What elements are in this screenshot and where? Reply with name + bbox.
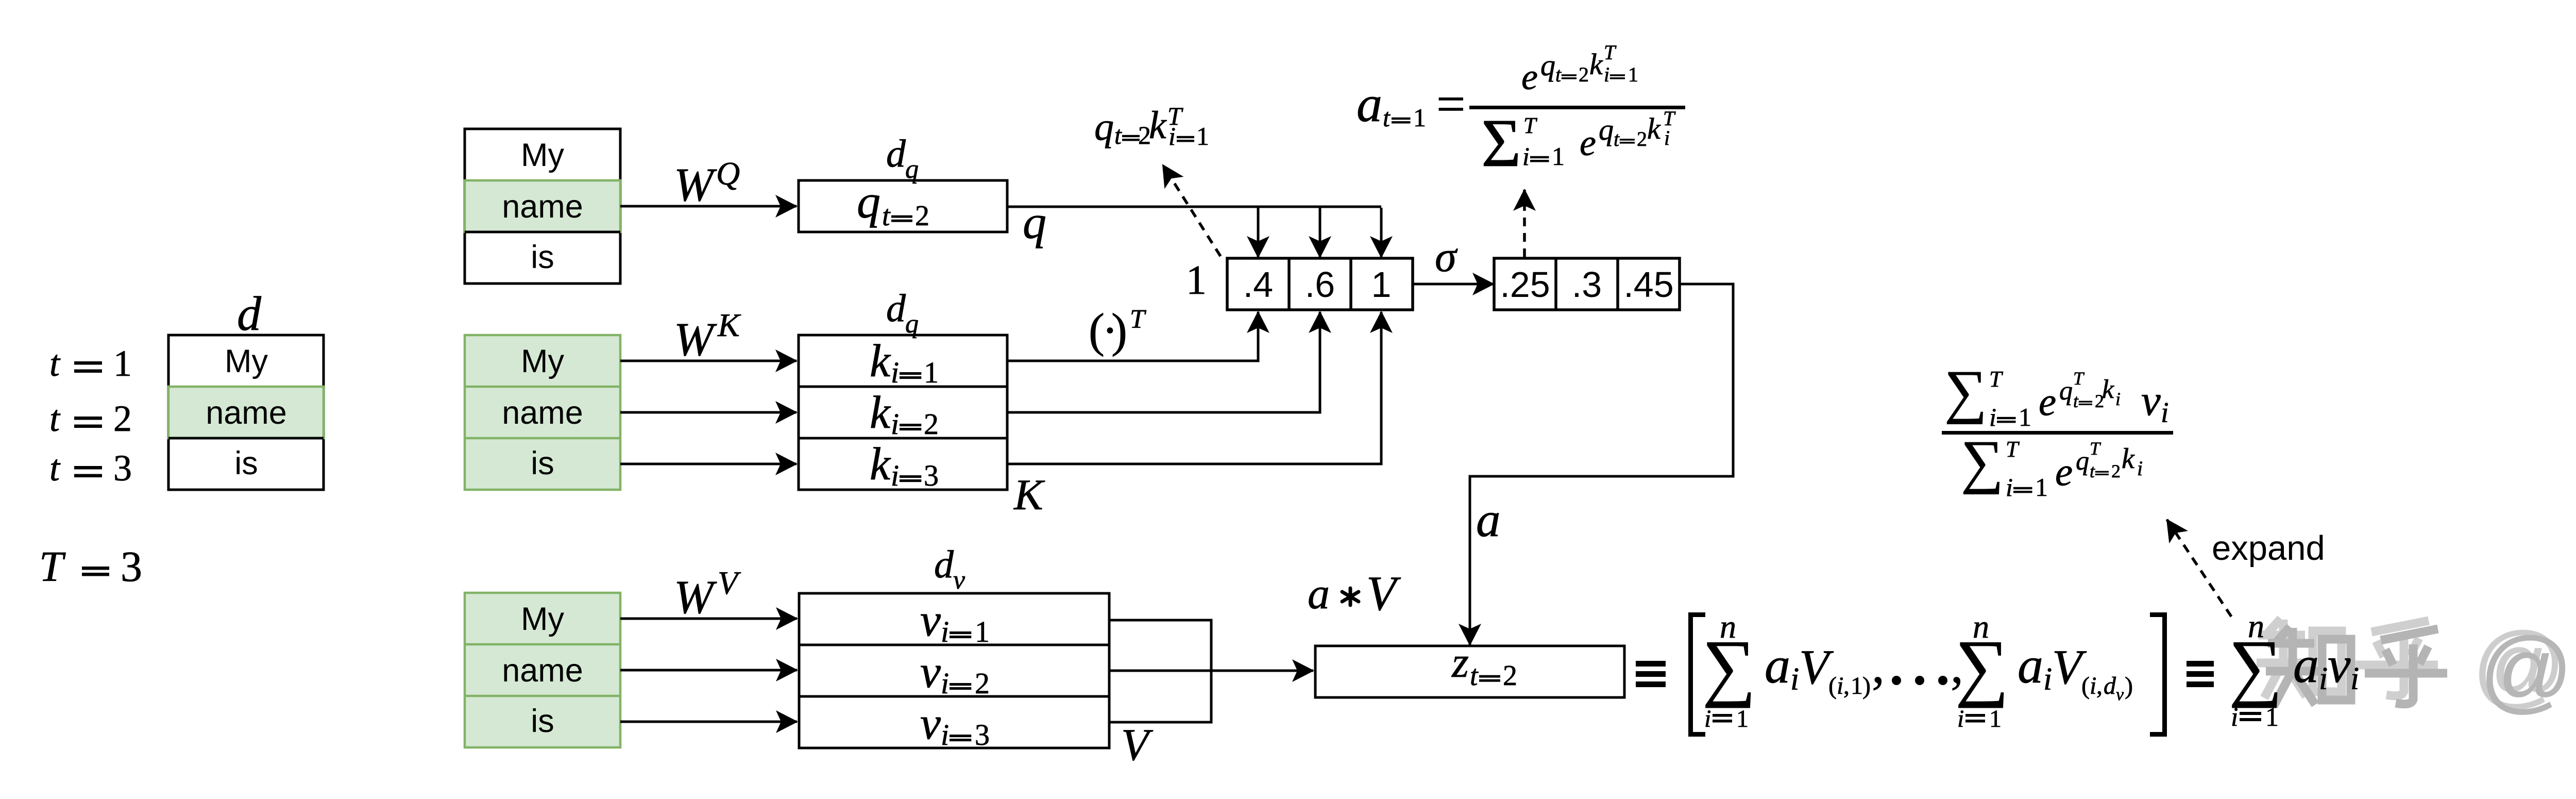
big formula bracket right: [2150, 612, 2167, 737]
svg-text:My: My: [225, 343, 268, 379]
svg-text:a: a: [2293, 636, 2319, 693]
v collector rect: [1109, 620, 1211, 722]
svg-text:i: i: [1989, 403, 1996, 431]
svg-text:T: T: [1130, 305, 1146, 334]
svg-text:q: q: [1094, 105, 1114, 148]
svg-text:1: 1: [1628, 63, 1638, 86]
svg-text:v: v: [953, 565, 965, 595]
dashed arrow to a_t=1 formula: [1523, 190, 1526, 257]
svg-text:q: q: [1599, 113, 1614, 146]
dashed arrow to qk label: [1163, 165, 1221, 256]
svg-text:i: i: [891, 356, 899, 389]
label W^K: [674, 307, 741, 365]
sum 1: [1702, 608, 1756, 733]
svg-text:T: T: [2006, 437, 2020, 462]
svg-text:q: q: [2076, 446, 2089, 476]
svg-text:q: q: [857, 175, 880, 228]
svg-text:.3: .3: [1572, 264, 1602, 305]
q output line: [1007, 206, 1381, 208]
svg-text:My: My: [521, 601, 564, 637]
svg-text:K: K: [717, 307, 741, 343]
big formula bracket left: [1688, 612, 1705, 737]
svg-text:k: k: [870, 387, 891, 438]
equiv 1: [1636, 661, 1666, 687]
svg-text:a: a: [2018, 637, 2043, 694]
svg-text:i: i: [1664, 126, 1670, 149]
svg-text:i: i: [2319, 661, 2328, 696]
expand dashed arrow: [2167, 520, 2231, 617]
softmax cells: [1494, 258, 1680, 310]
svg-text:2: 2: [975, 667, 990, 700]
label d_q (top): [886, 132, 919, 184]
svg-text:∑: ∑: [1961, 429, 2004, 495]
W^V arrows: [620, 618, 797, 620]
svg-text:t: t: [2090, 461, 2095, 481]
svg-text:∑: ∑: [1944, 359, 1987, 425]
attention cells: [1227, 258, 1413, 310]
svg-text:i: i: [2350, 661, 2359, 696]
right fraction formula: [1942, 359, 2173, 502]
label (.)^T: [1089, 304, 1146, 357]
svg-text:i: i: [941, 615, 949, 648]
svg-text:d: d: [237, 287, 262, 341]
svg-text:t: t: [882, 200, 891, 232]
svg-text:d: d: [886, 287, 906, 330]
svg-text:1: 1: [924, 356, 939, 389]
svg-text:i: i: [891, 459, 899, 492]
label W^V: [674, 564, 741, 623]
svg-text:k: k: [870, 336, 891, 387]
svg-text:W: W: [674, 158, 717, 211]
svg-text:): ): [2125, 672, 2133, 700]
svg-text:W: W: [674, 313, 717, 365]
svg-text:n: n: [2248, 608, 2264, 644]
svg-text:T: T: [1523, 113, 1538, 138]
svg-text:i: i: [1957, 705, 1964, 733]
svg-text:.6: .6: [1305, 264, 1335, 305]
svg-text:is: is: [531, 239, 554, 275]
v boxes: [799, 593, 1109, 752]
svg-text:name: name: [502, 189, 583, 225]
svg-text:k: k: [1149, 104, 1167, 147]
svg-text:W: W: [674, 571, 717, 623]
svg-text:t: t: [1555, 63, 1562, 86]
svg-text:q: q: [905, 309, 919, 339]
svg-text:i: i: [1790, 662, 1799, 697]
svg-text:i: i: [2090, 672, 2096, 700]
svg-text:i: i: [2137, 457, 2143, 480]
svg-text:My: My: [521, 137, 564, 173]
svg-text:1: 1: [1736, 705, 1749, 733]
svg-text:T: T: [2073, 368, 2085, 389]
label W^Q: [674, 155, 740, 211]
svg-text:name: name: [502, 653, 583, 689]
svg-text:t: t: [49, 398, 61, 439]
svg-text:.25: .25: [1500, 264, 1550, 305]
svg-text:is: is: [234, 445, 258, 481]
svg-text:T: T: [2090, 438, 2102, 459]
svg-text:a: a: [1357, 75, 1382, 132]
svg-text:t: t: [2073, 391, 2079, 411]
svg-text:e: e: [2055, 450, 2073, 494]
watermark 知乎: [2257, 619, 2438, 698]
svg-text:t: t: [1383, 103, 1391, 132]
label a*V: [1308, 566, 1401, 621]
label t=1: [49, 343, 132, 384]
svg-text:V: V: [718, 564, 741, 601]
svg-text:i: i: [1168, 122, 1176, 151]
label d_v: [934, 543, 965, 595]
svg-text:t: t: [1614, 127, 1620, 151]
svg-text:v: v: [2116, 685, 2124, 704]
V input stack: [465, 593, 620, 747]
svg-text:k: k: [2122, 443, 2135, 475]
a_i V_(i,d_v): [2018, 637, 2133, 704]
svg-text:z: z: [1451, 638, 1469, 687]
k transpose lines: [1007, 312, 1258, 361]
svg-text:d: d: [2104, 672, 2116, 700]
formula a_t=1: [1357, 41, 1685, 181]
svg-text:): ): [1862, 672, 1871, 700]
svg-text:a: a: [1476, 492, 1501, 547]
line softmax to z: [1470, 284, 1733, 645]
svg-text:i: i: [1522, 142, 1530, 171]
svg-text:): ): [1111, 304, 1127, 357]
svg-text:i: i: [2161, 397, 2169, 429]
svg-text:,: ,: [1872, 637, 1885, 694]
svg-text:Σ: Σ: [1481, 105, 1521, 181]
z box: [1315, 638, 1624, 697]
svg-text:e: e: [1580, 122, 1596, 163]
svg-text:(: (: [1828, 672, 1837, 700]
label t=2: [49, 398, 132, 439]
label T=3: [39, 543, 142, 591]
svg-text:q: q: [905, 155, 919, 184]
svg-text:2: 2: [1579, 63, 1589, 86]
sum 2: [1955, 608, 2009, 733]
svg-text:expand: expand: [2212, 529, 2325, 568]
svg-text:n: n: [1720, 608, 1736, 645]
sum 3: [2229, 608, 2282, 732]
svg-text:name: name: [206, 395, 287, 431]
svg-text:is: is: [531, 445, 554, 481]
svg-text:n: n: [1973, 608, 1989, 645]
left table d: [168, 335, 324, 490]
svg-text:3: 3: [924, 459, 939, 492]
q box: [799, 175, 1007, 232]
svg-text:q: q: [1540, 48, 1555, 82]
svg-text:Q: Q: [716, 155, 740, 192]
svg-text:i: i: [1704, 705, 1711, 733]
svg-text:.45: .45: [1623, 264, 1673, 305]
svg-text:v: v: [920, 646, 941, 697]
svg-text:2: 2: [113, 398, 132, 439]
svg-text:is: is: [531, 703, 554, 739]
svg-text:1: 1: [2035, 473, 2048, 502]
svg-text:1: 1: [2265, 703, 2279, 732]
svg-text:a: a: [1765, 637, 1790, 694]
svg-text:My: My: [521, 343, 564, 379]
svg-text:v: v: [2141, 376, 2161, 425]
svg-text:k: k: [870, 439, 891, 490]
svg-text:=: =: [1436, 75, 1465, 132]
svg-text:1: 1: [1196, 122, 1209, 151]
svg-text:2: 2: [2111, 461, 2121, 481]
svg-text:i: i: [2006, 473, 2013, 502]
svg-text:,: ,: [1843, 672, 1850, 700]
svg-text:3: 3: [975, 718, 990, 752]
svg-text:(: (: [2081, 672, 2090, 700]
svg-text:1: 1: [113, 343, 132, 384]
svg-text:k: k: [1589, 47, 1603, 81]
svg-text:1: 1: [1186, 258, 1207, 303]
svg-text:i: i: [891, 407, 899, 441]
svg-text:v: v: [920, 595, 941, 646]
svg-text:1: 1: [1989, 705, 2002, 733]
svg-text:a: a: [1308, 569, 1330, 618]
svg-text:2: 2: [1503, 660, 1517, 692]
svg-text:i: i: [941, 667, 949, 700]
arrow v to z: [1109, 670, 1313, 672]
svg-text:e: e: [2039, 379, 2056, 424]
svg-text:1: 1: [1413, 103, 1426, 132]
svg-text:d: d: [934, 543, 954, 586]
svg-text:1: 1: [1851, 672, 1863, 700]
label t=3: [49, 447, 132, 489]
a_i V_(i,1): [1765, 637, 1871, 700]
svg-text:T: T: [39, 543, 66, 591]
q drop arrows: [1257, 207, 1260, 257]
svg-text:V: V: [1366, 566, 1401, 621]
svg-text:k: k: [1647, 112, 1661, 145]
Q input stack: [465, 129, 620, 284]
svg-text:@HeptaAI: @HeptaAI: [2479, 619, 2576, 722]
svg-text:.4: .4: [1243, 264, 1273, 305]
svg-text:T: T: [1989, 367, 2004, 392]
svg-text:t: t: [49, 447, 61, 489]
svg-text:1: 1: [1552, 142, 1565, 171]
svg-text:i: i: [2043, 662, 2052, 697]
svg-text:t: t: [1470, 660, 1479, 692]
svg-text:d: d: [886, 132, 906, 175]
svg-text:2: 2: [924, 407, 939, 441]
svg-text:K: K: [1013, 471, 1045, 519]
label q_t=2 k^T_i=1: [1094, 102, 1209, 151]
svg-text:3: 3: [113, 447, 132, 489]
svg-text:2: 2: [915, 200, 929, 232]
W^K arrows: [620, 360, 796, 362]
svg-text:q: q: [1023, 196, 1046, 248]
K input stack: [465, 335, 620, 490]
svg-text:t: t: [49, 343, 61, 384]
svg-text:v: v: [920, 698, 941, 749]
svg-text:t: t: [1114, 121, 1122, 149]
svg-text:i: i: [2231, 703, 2238, 732]
k boxes: [799, 335, 1007, 492]
svg-text:1: 1: [1371, 264, 1392, 305]
svg-text:i: i: [1837, 672, 1843, 700]
svg-text:3: 3: [121, 543, 142, 591]
label d_q (over k): [886, 287, 919, 339]
sigma arrow: [1413, 283, 1494, 286]
equiv 2: [2187, 661, 2214, 687]
svg-text:1: 1: [2019, 403, 2031, 431]
svg-text:1: 1: [975, 615, 990, 648]
svg-text:q: q: [2059, 376, 2073, 406]
svg-text:name: name: [502, 395, 583, 431]
a_i v_i: [2293, 636, 2359, 696]
svg-text:k: k: [2102, 375, 2114, 404]
svg-text:σ: σ: [1435, 232, 1458, 281]
svg-text:i: i: [1604, 63, 1609, 86]
svg-text:,: ,: [2096, 672, 2103, 700]
svg-text:i: i: [941, 718, 949, 752]
svg-text:T: T: [1604, 41, 1617, 64]
W^Q arrow: [620, 205, 796, 208]
svg-text:i: i: [2115, 389, 2121, 409]
svg-text:V: V: [1121, 720, 1154, 770]
svg-text:2: 2: [1637, 127, 1647, 151]
svg-text:e: e: [1521, 56, 1538, 97]
comma dots comma: [1872, 637, 1963, 694]
svg-text:v: v: [2328, 636, 2351, 693]
